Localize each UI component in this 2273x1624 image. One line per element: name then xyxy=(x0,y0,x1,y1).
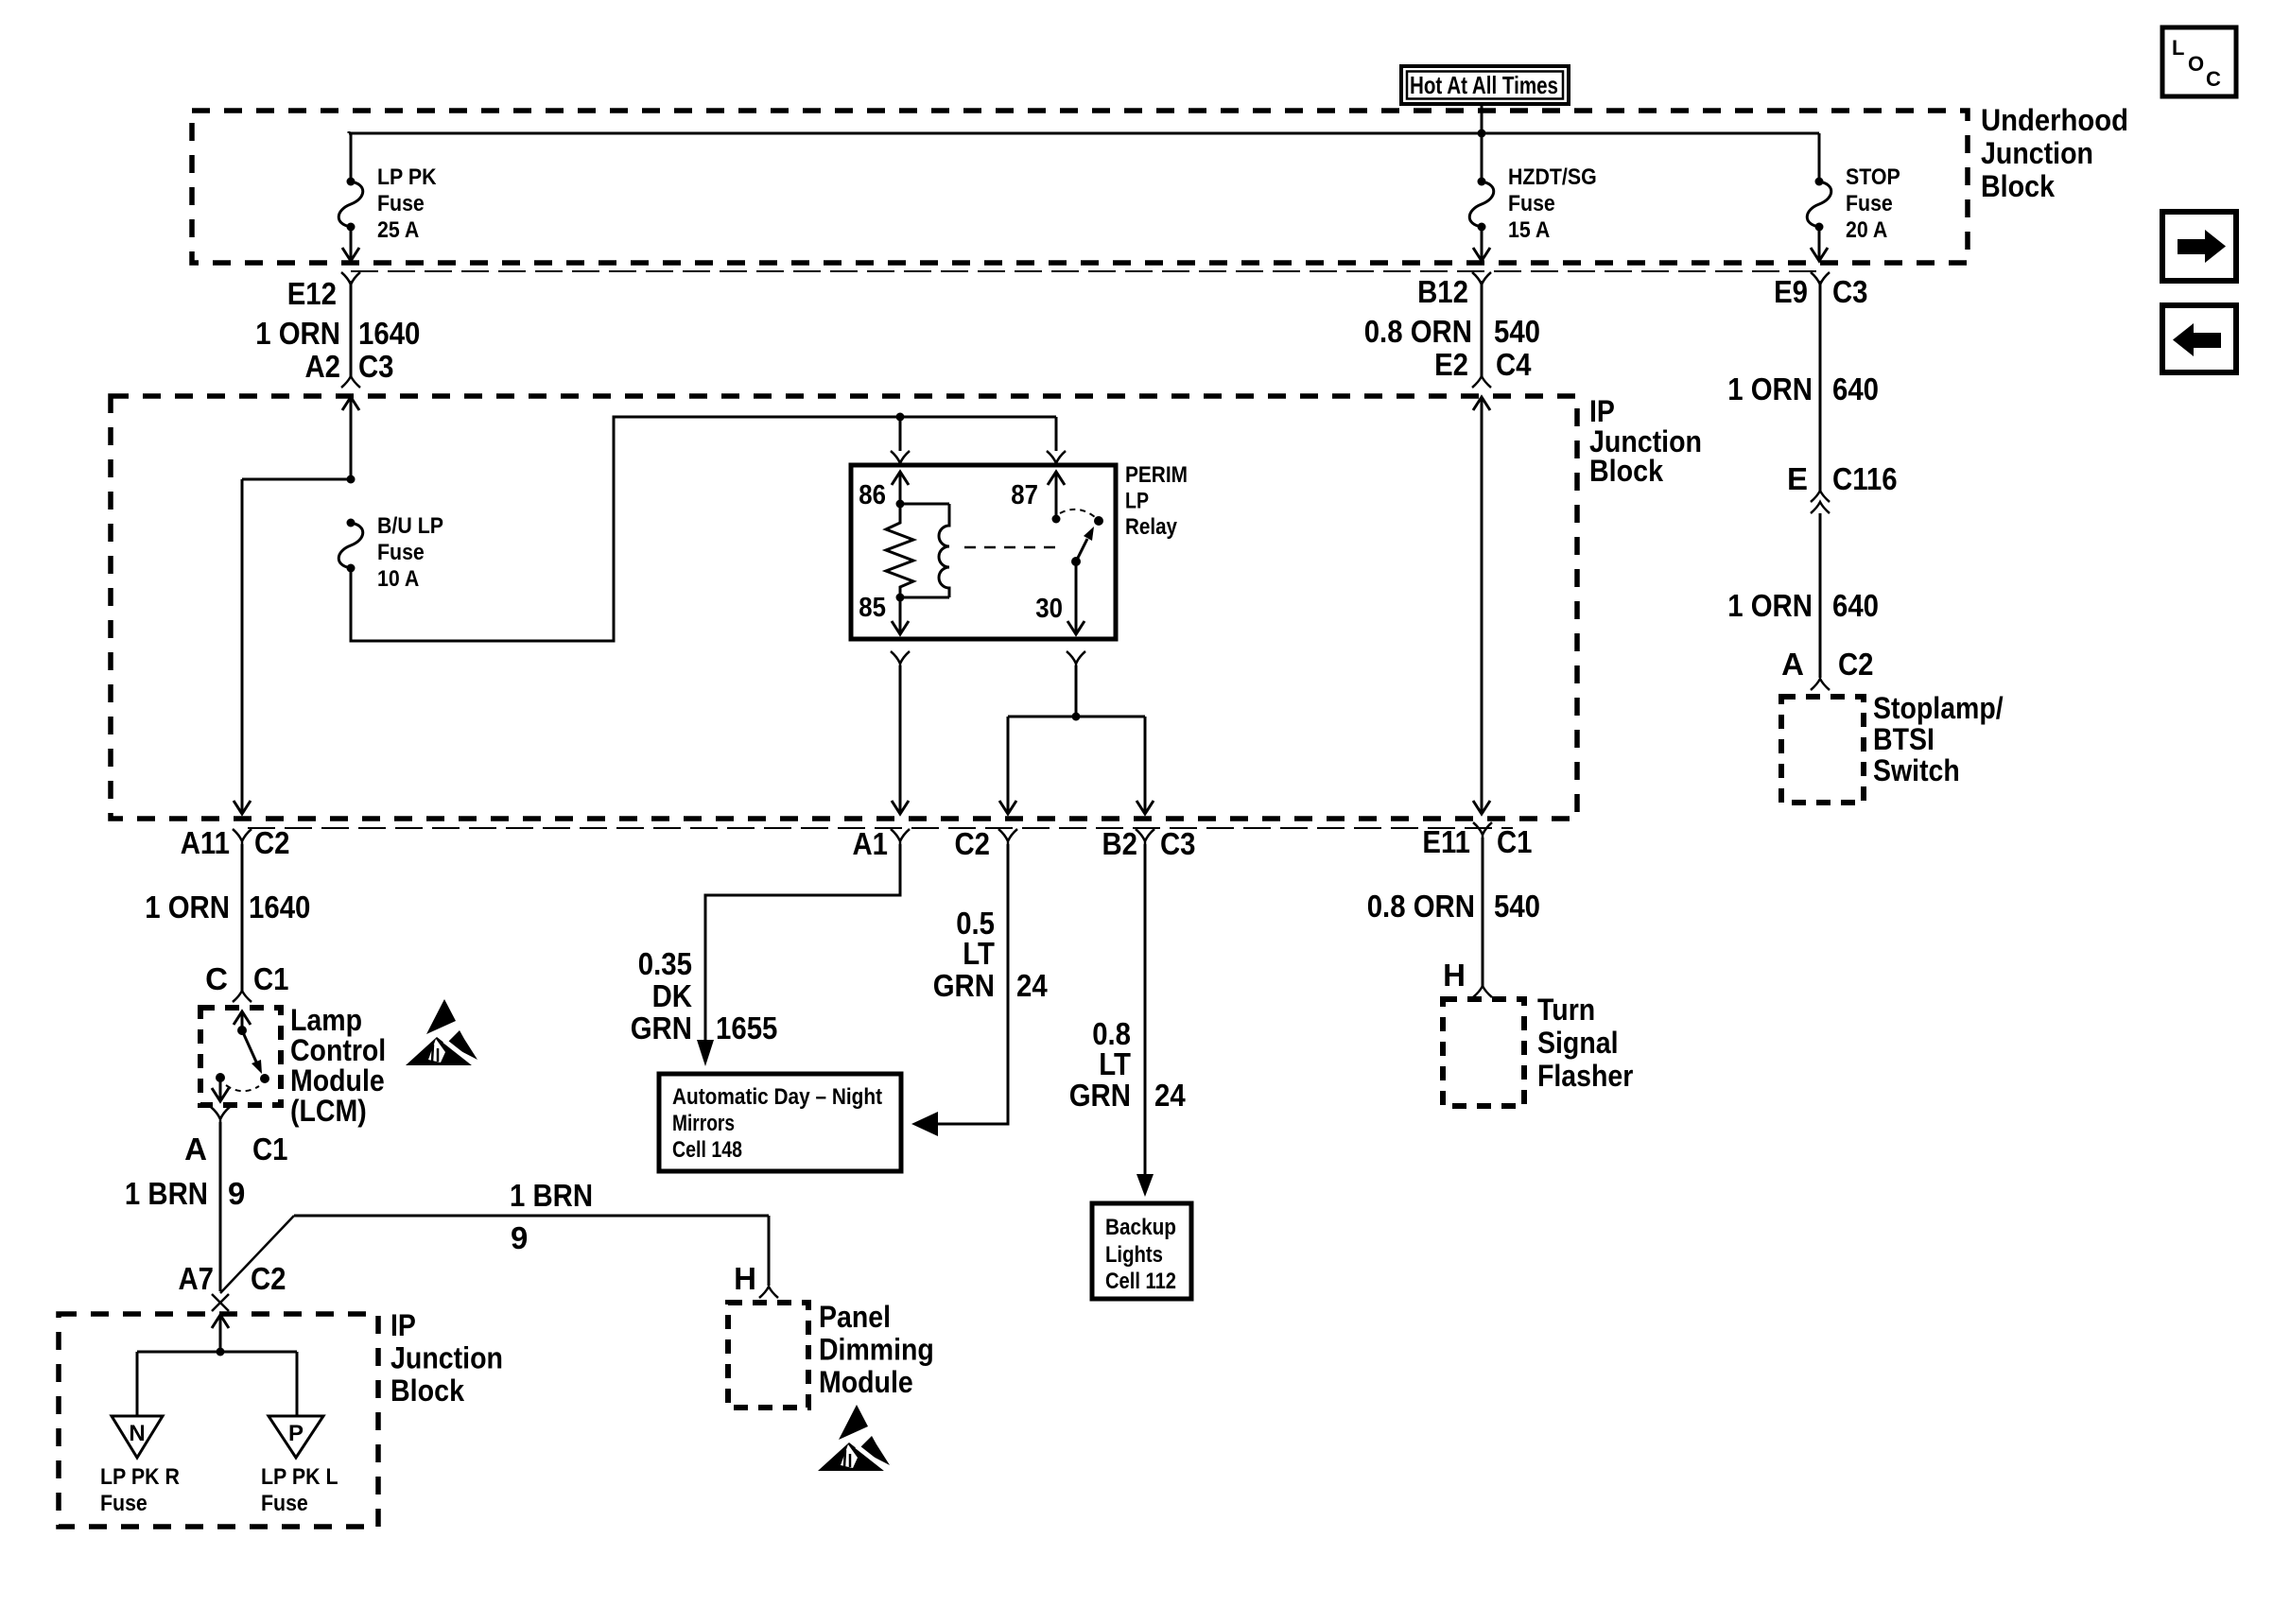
svg-text:0.35: 0.35 xyxy=(638,946,692,981)
svg-text:H: H xyxy=(734,1261,756,1296)
svg-text:LP PK R: LP PK R xyxy=(100,1464,180,1490)
svg-text:C116: C116 xyxy=(1832,461,1898,496)
svg-text:Automatic Day – Night: Automatic Day – Night xyxy=(672,1084,882,1110)
svg-text:Lights: Lights xyxy=(1105,1242,1163,1268)
svg-text:0.8 ORN: 0.8 ORN xyxy=(1367,889,1475,924)
svg-text:IP: IP xyxy=(1589,394,1615,428)
svg-text:IP: IP xyxy=(390,1308,416,1342)
svg-text:85: 85 xyxy=(859,593,886,623)
svg-text:E: E xyxy=(1787,461,1808,496)
svg-text:1 ORN: 1 ORN xyxy=(145,890,230,924)
svg-text:E12: E12 xyxy=(287,276,337,311)
svg-text:1640: 1640 xyxy=(249,890,310,924)
svg-text:1655: 1655 xyxy=(716,1011,777,1045)
svg-text:1 BRN: 1 BRN xyxy=(125,1176,208,1211)
svg-text:A11: A11 xyxy=(181,825,230,860)
svg-text:GRN: GRN xyxy=(631,1011,692,1045)
svg-text:PERIM: PERIM xyxy=(1125,462,1188,488)
svg-text:Switch: Switch xyxy=(1873,753,1960,787)
svg-text:9: 9 xyxy=(228,1176,245,1211)
svg-text:C1: C1 xyxy=(1497,824,1533,859)
svg-text:GRN: GRN xyxy=(1069,1078,1131,1113)
svg-text:30: 30 xyxy=(1035,594,1063,624)
svg-text:Fuse: Fuse xyxy=(100,1491,147,1516)
svg-text:86: 86 xyxy=(859,480,886,510)
svg-text:B2: B2 xyxy=(1102,826,1138,861)
svg-text:640: 640 xyxy=(1832,371,1879,406)
svg-text:O: O xyxy=(2188,52,2204,76)
svg-text:LP PK: LP PK xyxy=(377,164,437,190)
svg-text:C4: C4 xyxy=(1496,347,1532,382)
svg-text:0.8 ORN: 0.8 ORN xyxy=(1364,314,1472,349)
svg-text:Fuse: Fuse xyxy=(377,540,425,565)
svg-text:LT: LT xyxy=(963,936,995,971)
svg-text:Module: Module xyxy=(290,1063,385,1097)
svg-text:1 ORN: 1 ORN xyxy=(1727,371,1813,406)
svg-text:Mirrors: Mirrors xyxy=(672,1111,735,1136)
svg-text:C2: C2 xyxy=(251,1261,286,1296)
svg-text:LP: LP xyxy=(1125,489,1149,514)
svg-text:20 A: 20 A xyxy=(1846,217,1887,243)
svg-text:1640: 1640 xyxy=(358,316,420,351)
svg-text:Dimming: Dimming xyxy=(819,1333,934,1367)
svg-text:Signal: Signal xyxy=(1537,1026,1619,1060)
svg-text:P: P xyxy=(288,1421,304,1446)
svg-text:C: C xyxy=(2206,67,2221,91)
svg-text:C1: C1 xyxy=(252,1132,288,1166)
svg-text:L: L xyxy=(2172,36,2184,60)
svg-text:C3: C3 xyxy=(1832,274,1868,309)
svg-text:Lamp: Lamp xyxy=(290,1003,362,1037)
svg-text:Panel: Panel xyxy=(819,1300,891,1334)
svg-text:LT: LT xyxy=(1099,1046,1131,1081)
svg-text:Control: Control xyxy=(290,1033,386,1067)
svg-text:Relay: Relay xyxy=(1125,514,1178,540)
svg-text:Backup: Backup xyxy=(1105,1215,1176,1240)
svg-text:Block: Block xyxy=(1981,169,2055,203)
svg-text:A1: A1 xyxy=(853,826,889,861)
svg-text:Hot At All Times: Hot At All Times xyxy=(1410,71,1558,99)
svg-text:A: A xyxy=(184,1132,207,1166)
svg-text:Module: Module xyxy=(819,1365,913,1399)
svg-text:BTSI: BTSI xyxy=(1873,722,1935,756)
svg-text:DK: DK xyxy=(652,978,693,1013)
svg-text:B/U LP: B/U LP xyxy=(377,513,443,539)
svg-text:24: 24 xyxy=(1154,1078,1186,1113)
svg-text:1 BRN: 1 BRN xyxy=(510,1178,593,1213)
svg-text:C2: C2 xyxy=(1838,647,1874,682)
svg-text:N: N xyxy=(129,1421,145,1446)
svg-text:HZDT/SG: HZDT/SG xyxy=(1508,164,1597,190)
svg-text:Junction: Junction xyxy=(390,1341,503,1375)
svg-text:A7: A7 xyxy=(179,1261,215,1296)
svg-text:Fuse: Fuse xyxy=(1846,191,1893,216)
svg-text:E11: E11 xyxy=(1422,824,1470,859)
svg-text:LP PK L: LP PK L xyxy=(261,1464,338,1490)
svg-text:Stoplamp/: Stoplamp/ xyxy=(1873,691,2004,725)
svg-text:Fuse: Fuse xyxy=(377,191,425,216)
svg-text:C2: C2 xyxy=(955,826,991,861)
svg-text:E2: E2 xyxy=(1434,347,1468,382)
svg-text:Cell 148: Cell 148 xyxy=(672,1137,742,1163)
svg-text:Block: Block xyxy=(1589,454,1663,488)
svg-text:GRN: GRN xyxy=(933,968,995,1003)
svg-text:540: 540 xyxy=(1494,889,1540,924)
svg-text:1 ORN: 1 ORN xyxy=(1727,588,1813,623)
svg-text:Junction: Junction xyxy=(1981,136,2093,170)
svg-text:A2: A2 xyxy=(305,349,341,384)
svg-text:Underhood: Underhood xyxy=(1981,103,2128,137)
svg-text:C2: C2 xyxy=(254,825,290,860)
svg-text:C3: C3 xyxy=(358,349,394,384)
svg-text:540: 540 xyxy=(1494,314,1540,349)
svg-text:H: H xyxy=(1443,958,1466,993)
svg-text:15 A: 15 A xyxy=(1508,217,1550,243)
svg-text:640: 640 xyxy=(1832,588,1879,623)
svg-text:E9: E9 xyxy=(1774,274,1808,309)
svg-text:25 A: 25 A xyxy=(377,217,419,243)
svg-text:9: 9 xyxy=(511,1220,528,1255)
svg-text:STOP: STOP xyxy=(1846,164,1900,190)
svg-text:24: 24 xyxy=(1016,968,1048,1003)
svg-text:10 A: 10 A xyxy=(377,566,419,592)
svg-text:Turn: Turn xyxy=(1537,993,1595,1027)
svg-text:C: C xyxy=(205,961,228,996)
svg-text:Cell 112: Cell 112 xyxy=(1105,1269,1176,1294)
svg-text:Fuse: Fuse xyxy=(1508,191,1555,216)
svg-text:Block: Block xyxy=(390,1373,464,1408)
svg-text:A: A xyxy=(1781,647,1804,682)
svg-text:C1: C1 xyxy=(253,961,289,996)
svg-text:C3: C3 xyxy=(1160,826,1196,861)
svg-text:Flasher: Flasher xyxy=(1537,1059,1633,1093)
svg-text:(LCM): (LCM) xyxy=(290,1094,367,1128)
svg-text:B12: B12 xyxy=(1417,274,1468,309)
svg-text:87: 87 xyxy=(1011,480,1038,510)
svg-text:1 ORN: 1 ORN xyxy=(255,316,340,351)
svg-text:Fuse: Fuse xyxy=(261,1491,308,1516)
